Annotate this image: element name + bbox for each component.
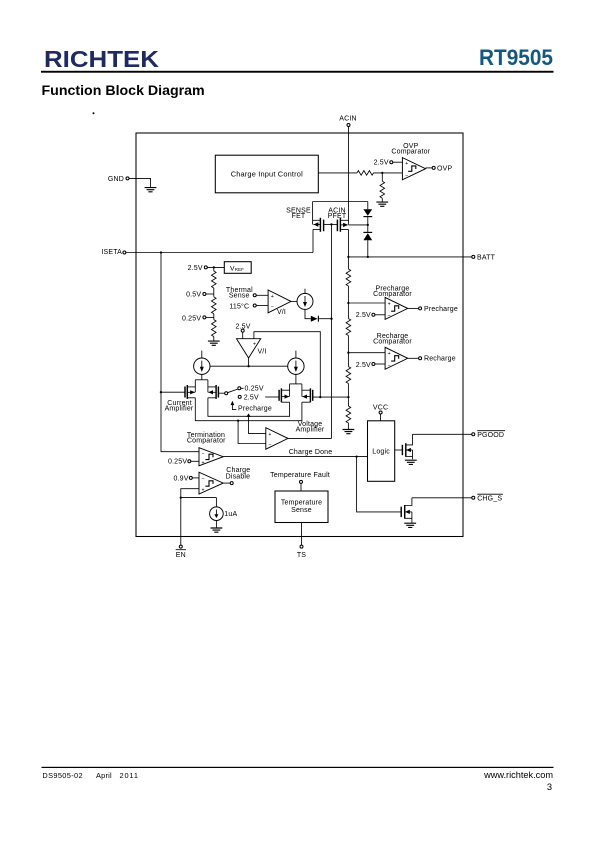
node 0.9V reference: [173, 475, 199, 482]
svg-text:3: 3: [547, 782, 552, 792]
diode D1 (ACIN body): [363, 202, 372, 225]
svg-text:0.5V: 0.5V: [186, 291, 201, 298]
label Current Amplifier: [165, 400, 194, 412]
svg-text:VCC: VCC: [373, 405, 388, 412]
transistor PGOOD driver: [395, 434, 413, 459]
wire bus lower (drains): [195, 398, 302, 422]
svg-text:2.5V: 2.5V: [356, 362, 371, 369]
svg-text:www.richtek.com: www.richtek.com: [483, 770, 553, 780]
wire V/I output to mirror rail: [248, 358, 250, 366]
svg-text:+: +: [201, 488, 204, 494]
node 2.5V OVP reference: [374, 160, 403, 167]
svg-text:RT9505: RT9505: [479, 45, 553, 70]
svg-text:V/I: V/I: [277, 309, 286, 316]
pin PGOOD: [413, 431, 506, 439]
transistor CHG_S driver: [401, 498, 412, 523]
wire thermal V/I to current source: [291, 300, 297, 302]
svg-text:Amplifier: Amplifier: [165, 405, 194, 412]
node Recharge output: [408, 356, 456, 363]
svg-text:PFET: PFET: [328, 213, 347, 220]
svg-text:+: +: [388, 351, 391, 357]
footer doc number: [42, 771, 138, 780]
block Logic: [368, 421, 395, 482]
ground (OVP divider): [376, 202, 388, 206]
svg-text:Comparator: Comparator: [391, 148, 430, 155]
current source thermal: [297, 289, 313, 310]
resistor batt divider 1: [346, 257, 351, 303]
wire Charge Done: [223, 455, 367, 457]
wire ACIN vertical into pass FETs: [348, 127, 350, 225]
current source 1uA: [210, 507, 238, 521]
node 0.25V termination ref: [168, 459, 199, 466]
resistor batt divider 2: [346, 303, 351, 353]
wire bus upper (drains): [208, 398, 290, 417]
svg-text:+: +: [201, 460, 204, 466]
diode D3 (thermal clamp): [311, 316, 333, 322]
pin VCC: [373, 405, 388, 421]
ground (batt divider): [343, 430, 355, 434]
op-amp recharge comparator: [385, 347, 408, 369]
node 0.25V switch contact: [241, 386, 264, 393]
wire charge done to CHG_S gate: [357, 457, 402, 512]
svg-text:DS9505-02: DS9505-02: [42, 771, 83, 780]
svg-text:2.5V: 2.5V: [374, 160, 389, 167]
svg-text:Logic: Logic: [372, 449, 390, 456]
svg-text:April: April: [96, 771, 112, 780]
pin CHG_S: [412, 494, 503, 502]
svg-text:RICHTEK: RICHTEK: [44, 46, 159, 72]
transistor voltage-amp left: [279, 384, 290, 402]
block Temperature Sense: [275, 491, 328, 523]
svg-text:Disable: Disable: [226, 473, 251, 480]
label Charge Done: [289, 449, 333, 456]
svg-text:Temperature Fault: Temperature Fault: [270, 472, 330, 479]
wire 2.5V feedback to voltage amp input: [254, 332, 320, 397]
svg-text:−: −: [387, 313, 390, 319]
node Thermal Sense input: [226, 287, 268, 300]
diode D2 (BATT body): [363, 225, 372, 258]
switch precharge select: [225, 387, 241, 395]
node precharge tap: [347, 302, 385, 304]
wire PFET body to diode node: [349, 224, 369, 226]
pin TS: [297, 523, 306, 560]
svg-text:FET: FET: [292, 213, 306, 220]
ground (ref ladder): [208, 341, 220, 345]
svg-text:VREF: VREF: [230, 265, 244, 272]
op-amp 2.5V V/I: [237, 339, 261, 358]
svg-text:Comparator: Comparator: [373, 338, 412, 345]
pin GND: [108, 176, 129, 183]
transistor ACIN PFET: [332, 218, 349, 257]
svg-text:−: −: [201, 451, 204, 457]
wire current source to diode D3: [305, 309, 311, 318]
wire ISETA rail: [126, 251, 313, 253]
wire EN to comparator plus: [180, 489, 199, 499]
resistor OVP series: [357, 171, 374, 176]
ground (GND pin): [145, 188, 157, 192]
svg-text:Sense: Sense: [229, 292, 250, 299]
svg-text:Function Block Diagram: Function Block Diagram: [42, 83, 205, 99]
svg-text:+: +: [253, 342, 256, 348]
node voltage-amp tap: [347, 396, 349, 398]
svg-text:2.5V: 2.5V: [356, 312, 371, 319]
pin OVP output: [426, 165, 453, 172]
label SENSE FET: [286, 207, 311, 220]
ground (1uA source): [215, 521, 217, 528]
svg-text:115°C: 115°C: [229, 302, 249, 310]
svg-text:+: +: [271, 294, 274, 300]
pin BATT: [347, 254, 495, 261]
footer page number: [547, 782, 552, 792]
transistor voltage-amp right: [302, 384, 313, 402]
current source voltage-amp tail: [288, 351, 304, 375]
svg-text:−: −: [268, 442, 271, 448]
op-amp charge disable comparator: [199, 472, 223, 494]
wire divider node: [374, 172, 403, 174]
label Termination Comparator: [187, 432, 226, 444]
current source current-amp tail: [194, 351, 210, 375]
svg-text:V/I: V/I: [257, 349, 266, 356]
resistor ref ladder middle: [212, 294, 217, 317]
svg-text:Temperature: Temperature: [281, 499, 322, 506]
wire voltage-amp right gate to divider tap: [313, 396, 349, 398]
svg-text:Precharge: Precharge: [424, 306, 458, 313]
node 0.25V tap: [182, 315, 214, 322]
block Charge Input Control: [215, 155, 318, 193]
svg-text:1uA: 1uA: [224, 511, 237, 518]
svg-text:CHG_S: CHG_S: [477, 496, 502, 503]
label V/I reference: [257, 349, 266, 356]
ground (PGOOD driver): [405, 460, 417, 464]
wire charge-input-control to OVP divider: [318, 172, 357, 174]
svg-text:2011: 2011: [120, 771, 139, 780]
label V/I thermal: [277, 309, 286, 316]
svg-text:ISETA: ISETA: [101, 249, 122, 256]
svg-text:OVP: OVP: [437, 165, 452, 172]
svg-text:−: −: [387, 363, 390, 369]
svg-text:−: −: [271, 304, 274, 310]
node 2.5V switch contact: [238, 394, 279, 401]
node 2.5V precharge ref: [356, 312, 385, 319]
wire ISETA sense down-line: [161, 253, 199, 452]
op-amp precharge comparator: [385, 297, 408, 319]
node 0.5V tap: [186, 291, 214, 298]
wire bus to output amp plus: [249, 416, 266, 433]
svg-text:BATT: BATT: [477, 254, 496, 261]
node charge disable output: [223, 482, 233, 485]
Richtek logo: [44, 46, 159, 72]
resistor batt divider 4: [346, 397, 351, 429]
svg-text:Charge Done: Charge Done: [289, 449, 333, 456]
footer website: [483, 770, 553, 780]
header rule: [41, 71, 554, 73]
wire bus to output amp minus: [238, 421, 266, 444]
svg-text:0.9V: 0.9V: [173, 475, 188, 482]
wire EN pulldown branch: [181, 498, 217, 507]
title Function Block Diagram: [42, 83, 205, 99]
label Recharge Comparator: [373, 333, 412, 346]
svg-text:+: +: [268, 432, 271, 438]
node 115C input: [229, 302, 268, 310]
stray ink dot: [93, 112, 95, 114]
wire tail to current-amp pair: [195, 374, 208, 379]
ground (CHG_S driver): [404, 523, 416, 527]
diagram outer frame: [136, 133, 463, 537]
op-amp output stage: [266, 428, 288, 450]
wire output stage to gate line: [288, 437, 332, 439]
wire ACIN rail: [313, 201, 368, 203]
resistor ref ladder top: [212, 267, 217, 294]
node Temperature Fault: [270, 472, 330, 491]
svg-text:2.5V: 2.5V: [244, 394, 259, 401]
svg-text:Amplifier: Amplifier: [296, 426, 325, 433]
svg-text:TS: TS: [297, 552, 306, 559]
part number RT9505: [479, 45, 553, 70]
label OVP Comparator: [391, 143, 430, 156]
label Voltage Amplifier: [296, 421, 325, 434]
svg-text:Comparator: Comparator: [187, 438, 226, 445]
node recharge tap: [347, 352, 385, 354]
transistor current-amp right: [208, 380, 225, 399]
svg-text:2.5V: 2.5V: [188, 265, 203, 272]
op-amp thermal V/I: [268, 290, 291, 313]
resistor ref ladder bottom: [212, 317, 217, 341]
node 2.5V V/I input: [235, 324, 250, 339]
pin ISETA: [101, 249, 126, 256]
node 2.5V reference: [188, 265, 225, 272]
resistor batt divider 3: [346, 353, 351, 397]
wire gate drive line: [331, 224, 333, 438]
svg-text:Charge Input Control: Charge Input Control: [231, 170, 303, 179]
svg-text:PGOOD: PGOOD: [477, 432, 504, 439]
svg-text:0.25V: 0.25V: [182, 315, 201, 322]
transistor SENSE FET: [313, 202, 332, 232]
label ACIN PFET: [328, 207, 347, 220]
pin ACIN: [339, 116, 356, 127]
svg-text:+: +: [388, 301, 391, 307]
op-amp termination comparator: [199, 448, 223, 467]
svg-text:0.25V: 0.25V: [245, 386, 264, 393]
wire GND: [129, 178, 151, 187]
wire SENSE FET drain to ISETA: [312, 229, 314, 252]
label Precharge Comparator: [373, 285, 412, 298]
label Charge Disable: [226, 467, 251, 481]
svg-text:ACIN: ACIN: [339, 116, 356, 123]
node ISETA to current-amp gate: [160, 391, 162, 393]
svg-text:−: −: [201, 477, 204, 483]
transistor current-amp left: [161, 380, 195, 399]
block VREF: [224, 262, 251, 274]
node 2.5V recharge ref: [356, 362, 385, 369]
node Precharge output: [408, 306, 458, 313]
svg-text:Precharge: Precharge: [238, 405, 272, 412]
wire current mirror rail: [210, 365, 288, 367]
svg-text:GND: GND: [108, 176, 124, 183]
op-amp OVP comparator: [402, 158, 425, 180]
svg-text:EN: EN: [176, 552, 186, 559]
svg-text:−: −: [405, 173, 408, 179]
svg-text:Comparator: Comparator: [373, 291, 412, 298]
footer rule: [42, 767, 554, 768]
resistor OVP shunt: [380, 173, 385, 202]
wire tail to voltage-amp pair: [290, 374, 302, 384]
svg-text:Recharge: Recharge: [424, 356, 456, 363]
svg-text:+: +: [405, 161, 408, 167]
label Precharge switch: [231, 401, 272, 413]
node FET gate junction: [330, 223, 332, 225]
svg-text:Sense: Sense: [291, 507, 312, 514]
svg-text:0.25V: 0.25V: [168, 459, 187, 466]
pin EN: [176, 498, 186, 560]
